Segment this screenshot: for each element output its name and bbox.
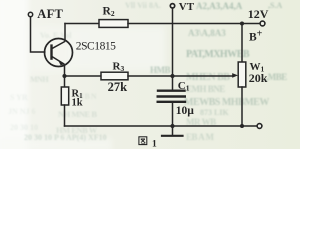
svg-text:20k: 20k (249, 71, 268, 85)
svg-text:873 LIK: 873 LIK (200, 108, 229, 117)
terminal bottom right (257, 124, 262, 129)
svg-text:HMB: HMB (150, 65, 170, 75)
svg-text:MHEN BB: MHEN BB (186, 72, 230, 83)
svg-text:MNH: MNH (30, 75, 49, 84)
wire right branch down (241, 24, 243, 63)
svg-text:PAT,MXHWEB: PAT,MXHWEB (186, 49, 250, 60)
junction dot VT node (170, 74, 174, 78)
svg-text:12V: 12V (248, 7, 269, 21)
wire R3 row right to wiper (128, 75, 234, 77)
top rail wire middle segment (128, 23, 242, 25)
wire C1 bottom lead (172, 103, 174, 126)
capacitor C1 plate top (158, 89, 185, 91)
wire R3 row left (65, 75, 102, 77)
svg-text:A2,A3,A4,A: A2,A3,A4,A (196, 1, 243, 11)
bleed-through backside text (decorative texture) (8, 1, 287, 142)
transistor Q1 2SC1815 (45, 39, 73, 67)
terminal VT (170, 4, 174, 8)
capacitor C1 plate bottom (158, 101, 185, 103)
svg-text:10µ: 10µ (176, 105, 195, 117)
wire collector up (64, 24, 66, 41)
bottom rail (65, 125, 257, 127)
svg-text:20 30 10: 20 30 10 (10, 123, 38, 132)
junction dot top right (240, 21, 244, 25)
svg-text:EMH BNE: EMH BNE (186, 84, 225, 94)
junction dot ground node (170, 124, 174, 128)
resistor R3 (101, 72, 128, 80)
svg-text:1k: 1k (72, 97, 83, 108)
svg-text:A3\A,8A3: A3\A,8A3 (188, 28, 226, 38)
wire R1 bottom to rail (64, 105, 66, 126)
svg-text:EB A M: EB A M (186, 132, 215, 142)
top rail wire to 12V terminal (242, 23, 260, 25)
wiper arrowhead of W1 (232, 73, 238, 78)
svg-text:S YR: S YR (10, 93, 28, 102)
terminal 12V (260, 21, 265, 26)
svg-text:MEWBS MHBMEW: MEWBS MHBMEW (184, 97, 269, 108)
capacitor C1 plate middle (158, 95, 185, 97)
ground symbol (162, 126, 183, 136)
junction dot W1 bottom (240, 124, 244, 128)
svg-text:Vll Vii 8A.: Vll Vii 8A. (125, 1, 161, 10)
terminal AFT (28, 12, 32, 16)
svg-text:AFT: AFT (37, 7, 63, 21)
svg-text:VT: VT (179, 1, 195, 13)
circuit ink (28, 4, 265, 136)
resistor R1 (61, 87, 68, 105)
potentiometer W1 (238, 62, 246, 87)
resistor R2 (99, 20, 128, 28)
svg-text:2SC1815: 2SC1815 (76, 41, 116, 53)
svg-text:,MBE: ,MBE (266, 72, 287, 82)
svg-text:JN NJ 6: JN NJ 6 (8, 107, 36, 116)
svg-text:27k: 27k (108, 80, 128, 94)
svg-text:20 30 10 P 6 AP(4) XF10: 20 30 10 P 6 AP(4) XF10 (24, 133, 107, 142)
wire emitter down (64, 66, 66, 87)
wire VT down to node (172, 9, 174, 76)
svg-text:,S.A: ,S.A (268, 1, 282, 10)
wire AFT down to base (31, 17, 45, 52)
junction dot emitter node (62, 74, 66, 78)
wire C1 top lead (172, 76, 174, 90)
wire W1 bottom (241, 87, 243, 126)
top rail wire left segment (65, 23, 99, 25)
svg-text:1: 1 (152, 139, 157, 149)
caption 图 1 (139, 137, 157, 150)
